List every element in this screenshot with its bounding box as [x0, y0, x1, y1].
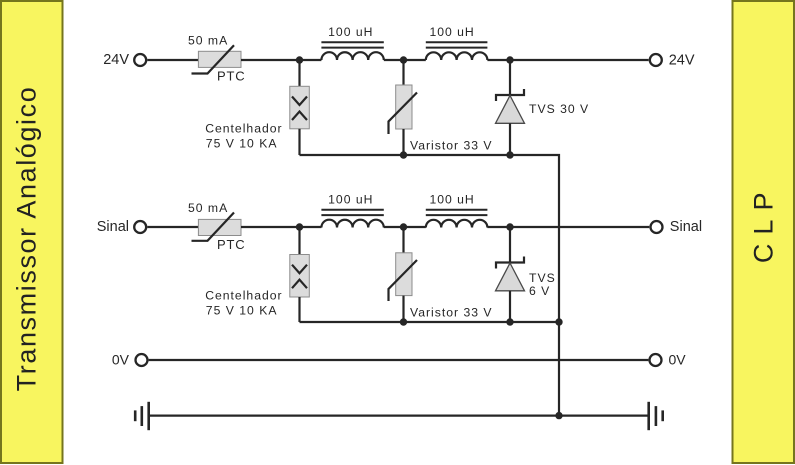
svg-text:TVS 30 V: TVS 30 V: [529, 102, 589, 116]
junction dot rail1-RV1: [400, 151, 407, 158]
svg-text:75 V 10 KA: 75 V 10 KA: [206, 303, 278, 317]
svg-text:Sinal: Sinal: [670, 219, 702, 235]
wire Sinal terminal to PTC2: [147, 226, 198, 228]
terminal Sinal left: [134, 221, 146, 233]
node B junction dot: [400, 56, 407, 63]
svg-text:Centelhador: Centelhador: [205, 121, 282, 135]
inductor L3 core bars: [321, 209, 383, 211]
junction dot rail1-TVS1: [506, 151, 513, 158]
varistor RV2 diagonal: [389, 260, 418, 301]
wire L3 to L4: [384, 226, 426, 228]
junction dot trunk-ground rail: [555, 412, 562, 419]
inductor L1 core bars: [321, 41, 383, 43]
svg-text:PTC: PTC: [217, 69, 245, 84]
terminal Sinal right: [651, 221, 663, 233]
gas discharge tube GDT2 body: [290, 255, 310, 298]
wire node E to RV2: [402, 227, 404, 253]
svg-text:Sinal: Sinal: [97, 219, 129, 235]
TVS diode D1 triangle: [496, 96, 525, 124]
svg-text:24V: 24V: [669, 52, 695, 68]
svg-text:100 uH: 100 uH: [328, 25, 373, 39]
varistor RV2 body: [396, 253, 412, 296]
svg-text:100 uH: 100 uH: [429, 25, 474, 39]
wire TVS1 to rail1: [509, 123, 511, 155]
svg-text:75 V 10 KA: 75 V 10 KA: [206, 137, 278, 151]
junction dot rail2-TVS2: [506, 318, 513, 325]
svg-text:50 mA: 50 mA: [188, 33, 228, 47]
svg-text:Centelhador: Centelhador: [205, 289, 282, 303]
svg-text:CLP: CLP: [748, 184, 778, 264]
svg-text:Varistor 33 V: Varistor 33 V: [410, 306, 493, 320]
svg-text:TVS: TVS: [529, 271, 556, 285]
wire rail1 and trunk to ground rail: [300, 155, 560, 416]
inductor L1 coil: [321, 52, 383, 60]
wire 24V terminal to PTC1: [147, 59, 198, 61]
thermistor PTC2 diagonal: [192, 213, 235, 241]
thermistor PTC1 body: [198, 51, 241, 67]
wire node B to RV1: [402, 60, 404, 85]
wire RV1 to rail1: [402, 129, 404, 155]
TVS diode D2 triangle: [496, 263, 525, 291]
wire GDT2 to rail2: [298, 297, 300, 322]
wire TVS2 to rail2: [509, 291, 511, 322]
node F junction dot: [506, 223, 513, 230]
varistor RV1 diagonal: [389, 93, 418, 135]
node A junction dot: [296, 56, 303, 63]
inductor L4 coil: [426, 220, 488, 228]
varistor RV1 body: [396, 85, 412, 129]
junction dot rail2-trunk: [555, 318, 562, 325]
terminal 24V right: [650, 54, 662, 66]
terminal 0V left: [136, 354, 148, 366]
svg-text:Transmissor Analógico: Transmissor Analógico: [12, 86, 42, 392]
terminal 24V left: [134, 54, 146, 66]
wire 0V line: [149, 359, 649, 361]
svg-text:50 mA: 50 mA: [188, 201, 228, 215]
svg-text:24V: 24V: [103, 52, 129, 68]
wire GDT1 to rail1: [298, 129, 300, 155]
inductor L2 core bars: [426, 41, 488, 43]
wire node F to TVS2: [509, 227, 511, 263]
wire node D to GDT2: [298, 227, 300, 255]
wire ground rail: [149, 415, 649, 417]
svg-text:100 uH: 100 uH: [429, 193, 474, 207]
svg-text:0V: 0V: [112, 351, 130, 367]
wire node A to GDT1: [298, 60, 300, 86]
inductor L3 coil: [321, 220, 383, 228]
svg-text:100 uH: 100 uH: [328, 193, 373, 207]
gas discharge tube GDT1 body: [290, 86, 310, 129]
wire rail2: [300, 321, 560, 323]
inductor L2 coil: [426, 52, 488, 60]
TVS diode D1 cathode bar: [496, 89, 524, 101]
node E junction dot: [400, 223, 407, 230]
TVS diode D2 cathode bar: [496, 257, 524, 269]
thermistor PTC2 body: [198, 219, 241, 235]
PLC block (right yellow bar): [733, 1, 795, 463]
junction dot rail2-RV2: [400, 318, 407, 325]
node C junction dot: [506, 56, 513, 63]
inductor L4 core bars: [426, 209, 488, 211]
wire PTC1 to node A: [241, 59, 321, 61]
ground symbol left: [135, 402, 149, 430]
wire PTC2 to node D: [241, 226, 321, 228]
transmitter block (left yellow bar): [1, 1, 63, 463]
svg-text:PTC: PTC: [217, 237, 245, 252]
svg-text:6 V: 6 V: [529, 284, 550, 298]
terminal 0V right: [650, 354, 662, 366]
wire L2 to 24V right terminal: [487, 59, 648, 61]
gas discharge tube GDT1 arrows: [292, 97, 307, 106]
svg-text:Varistor 33 V: Varistor 33 V: [410, 138, 493, 152]
wire node C to TVS1: [509, 60, 511, 95]
svg-text:0V: 0V: [669, 351, 687, 367]
wire RV2 to rail2: [402, 296, 404, 322]
wire L4 to Sinal right terminal: [487, 226, 649, 228]
node D junction dot: [296, 223, 303, 230]
wire L1 to L2: [384, 59, 426, 61]
gas discharge tube GDT2 arrows: [292, 265, 307, 274]
ground symbol right: [649, 402, 663, 430]
thermistor PTC1 diagonal: [192, 45, 235, 73]
